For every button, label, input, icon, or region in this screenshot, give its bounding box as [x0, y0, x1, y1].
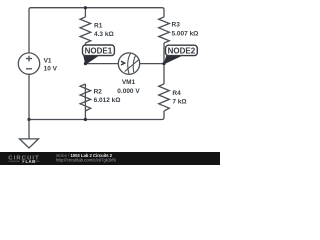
svg-text:R1: R1 — [94, 22, 103, 29]
ground stem — [28, 120, 30, 139]
node NODE1 flag box — [83, 45, 115, 56]
svg-text:4.3 kΩ: 4.3 kΩ — [94, 31, 114, 38]
wire top horizontal with corners — [29, 8, 164, 53]
node NODE2 flag tail — [164, 55, 181, 64]
node NODE2 flag box — [166, 45, 198, 55]
svg-text:5.007 kΩ: 5.007 kΩ — [172, 30, 199, 37]
svg-text:R2: R2 — [94, 89, 103, 96]
svg-text:NODE2: NODE2 — [168, 46, 196, 55]
wire voltmeter left — [85, 63, 118, 65]
wire middle vertical mid — [84, 43, 86, 64]
resistor R1 — [80, 17, 91, 43]
voltage source V1 — [18, 53, 39, 74]
wire right vertical middle — [163, 43, 165, 84]
svg-text:LAB: LAB — [26, 159, 36, 164]
svg-text:R4: R4 — [172, 90, 181, 97]
wire bottom horizontal with corner — [29, 111, 164, 120]
svg-text:http://circuitlab.com/c/e97gk2: http://circuitlab.com/c/e97gk2kf9 — [56, 157, 116, 162]
svg-text:10 V: 10 V — [44, 66, 58, 73]
svg-text:7 kΩ: 7 kΩ — [172, 99, 186, 106]
ground triangle — [20, 139, 39, 148]
svg-text:R3: R3 — [172, 22, 181, 29]
svg-text:6.012 kΩ: 6.012 kΩ — [94, 97, 121, 104]
svg-text:VM1: VM1 — [122, 79, 136, 86]
watermark bar — [0, 152, 220, 165]
node NODE1 flag tail — [84, 55, 98, 64]
voltmeter VM1 — [118, 53, 139, 75]
wire left vertical lower — [28, 74, 30, 119]
svg-text:NODE1: NODE1 — [85, 46, 113, 55]
wire middle vertical lower — [84, 84, 86, 120]
junction dot ground — [27, 118, 30, 121]
wire voltmeter right — [140, 63, 164, 65]
junction dot node1 — [84, 62, 87, 65]
resistor R4 — [159, 84, 170, 111]
junction dot bottom middle — [84, 118, 87, 121]
wire middle vertical upper — [84, 8, 86, 17]
svg-text:0.000 V: 0.000 V — [117, 88, 140, 95]
resistor R2 — [80, 84, 91, 111]
junction dot node2 — [162, 62, 165, 65]
junction dot top middle — [84, 6, 87, 9]
resistor R3 — [159, 17, 170, 43]
logo underline right — [35, 160, 40, 163]
logo underline left — [9, 160, 20, 163]
logo bolt — [22, 160, 25, 164]
svg-text:V1: V1 — [44, 57, 52, 64]
